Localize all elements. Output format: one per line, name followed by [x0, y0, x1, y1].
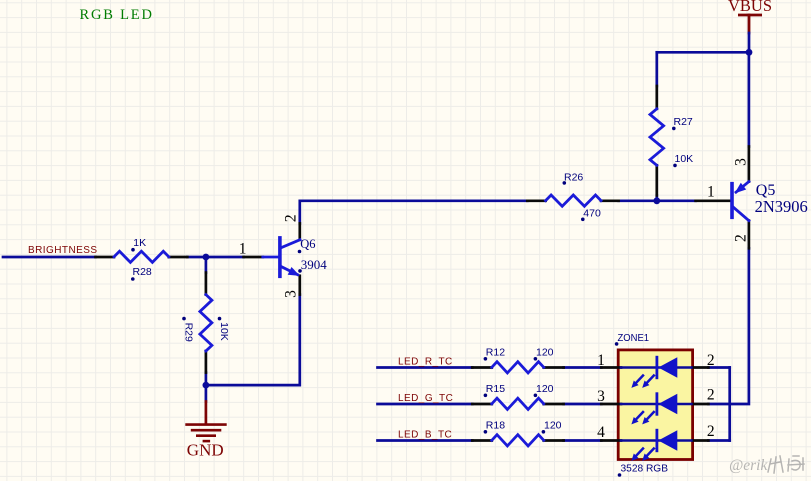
svg-text:470: 470 [583, 207, 601, 219]
wire LED row2 left [378, 403, 473, 406]
svg-text:ZONE1: ZONE1 [618, 332, 650, 344]
svg-text:3: 3 [597, 388, 605, 405]
LED diode row 2 [601, 394, 708, 425]
wire LED row3 resistor to pin [564, 439, 602, 442]
transistor Q6 3904 NPN [239, 214, 328, 298]
wire LED row3 left [378, 439, 473, 442]
svg-text:R29: R29 [183, 323, 195, 342]
svg-text:R12: R12 [486, 346, 505, 358]
svg-text:LED_B_TC: LED_B_TC [398, 429, 452, 440]
svg-text:GND: GND [187, 441, 224, 460]
wire R29 bottom to GND junction [205, 373, 208, 386]
resistor R28 1K [96, 237, 188, 281]
wire BRIGHTNESS input [3, 256, 96, 259]
LED diode row 1 [601, 357, 708, 388]
svg-text:R15: R15 [486, 383, 505, 395]
wire VBUS column down to Q5 emitter [748, 52, 751, 146]
wire top horizontal VBUS to R27 [657, 51, 749, 54]
wire R29 top [205, 257, 208, 273]
wire LED row1 right [708, 366, 729, 369]
wire Q6 emitter down and across [206, 295, 300, 386]
resistor R12 120 [472, 346, 563, 373]
svg-text:10K: 10K [218, 322, 230, 341]
svg-text:1: 1 [239, 240, 247, 257]
watermark [729, 456, 804, 474]
svg-text:120: 120 [536, 346, 554, 358]
power VBUS [728, 0, 772, 33]
svg-text:3: 3 [732, 158, 749, 166]
wire LED rows 1-3 vertical tie [728, 368, 731, 441]
svg-text:@erik: @erik [729, 457, 768, 474]
Q5 pin 1 (base) [696, 199, 731, 202]
transistor Q5 2N3906 PNP [696, 147, 808, 249]
svg-text:BRIGHTNESS: BRIGHTNESS [28, 245, 98, 256]
svg-text:120: 120 [536, 383, 554, 395]
wire LED row2 resistor to pin [564, 403, 602, 406]
svg-text:1K: 1K [133, 237, 146, 249]
resistor R27 10K [650, 86, 693, 195]
LED package ZONE1 3528 RGB [601, 350, 708, 461]
svg-text:120: 120 [544, 419, 562, 431]
resistor R18 120 [472, 419, 563, 446]
LED diode row 3 [601, 430, 708, 461]
svg-text:2: 2 [732, 234, 749, 242]
svg-text:3: 3 [283, 290, 300, 298]
Q6 pin 1 (base) [244, 256, 263, 259]
Q6 pin 3 (emitter) [298, 276, 301, 295]
node junction at VBUS column [746, 49, 753, 56]
svg-text:2: 2 [707, 352, 715, 369]
wire LED row1 resistor to pin [564, 366, 602, 369]
svg-text:Q6: Q6 [300, 237, 315, 251]
ground GND [187, 385, 226, 460]
svg-text:10K: 10K [675, 153, 694, 165]
svg-text:R26: R26 [564, 171, 583, 183]
svg-text:LED_G_TC: LED_G_TC [398, 393, 453, 404]
Q5 pin 3 (emitter) [748, 147, 751, 182]
node junction R27/R26 [653, 197, 660, 204]
resistor R15 120 [472, 383, 563, 410]
wire R27 bottom to junction [655, 195, 658, 200]
wire R28 to Q6 base [187, 256, 243, 259]
wire R26 right to Q5 base [619, 199, 696, 202]
svg-text:R18: R18 [486, 419, 505, 431]
svg-text:LED_R_TC: LED_R_TC [398, 356, 453, 367]
svg-text:2N3906: 2N3906 [755, 197, 808, 216]
wire Q6 collector to R26 [300, 201, 528, 224]
wire VBUS stub to junction [748, 33, 751, 52]
svg-text:R28: R28 [133, 266, 152, 278]
node junction GND [203, 382, 210, 389]
svg-text:1: 1 [707, 184, 715, 201]
wire LED row3 right [708, 439, 729, 442]
Q6 pin 2 (collector) [298, 223, 301, 239]
svg-text:1: 1 [597, 352, 605, 369]
wire LED row1 left [378, 366, 473, 369]
svg-text:R27: R27 [674, 116, 693, 128]
resistor R29 10K [182, 273, 230, 373]
wire R27 top [655, 52, 658, 86]
Q5 pin 2 (collector) [748, 221, 751, 249]
wire Q5 collector down to LED row2 [708, 248, 749, 404]
svg-text:2: 2 [707, 423, 715, 440]
node junction base/R29 [203, 254, 210, 261]
resistor R26 470 [527, 171, 618, 221]
svg-text:3528 RGB: 3528 RGB [621, 463, 669, 475]
svg-text:RGB LED: RGB LED [80, 7, 154, 23]
svg-text:2: 2 [707, 387, 715, 404]
svg-text:3904: 3904 [301, 257, 328, 272]
svg-text:VBUS: VBUS [728, 0, 772, 15]
svg-text:4: 4 [597, 424, 605, 441]
svg-text:2: 2 [282, 214, 299, 222]
